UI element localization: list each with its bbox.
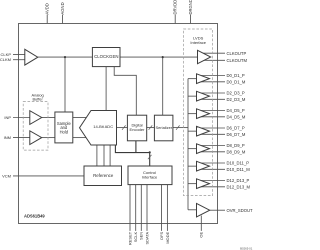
svg-text:D8_D9_M: D8_D9_M [227, 149, 246, 154]
svg-text:CLKOUTP: CLKOUTP [227, 51, 247, 56]
junction dots [64, 56, 164, 153]
svg-text:CLOCKGEN: CLOCKGEN [94, 54, 118, 59]
wire bus branch D0 [188, 78, 197, 80]
pin SDATA wire [146, 185, 148, 231]
pin INP wire [13, 117, 30, 119]
svg-text:D2_D3_P: D2_D3_P [227, 91, 245, 96]
wire clock tap to Serializer [162, 57, 164, 115]
svg-text:D0_D1_M: D0_D1_M [227, 79, 246, 84]
svg-text:D8_D9_P: D8_D9_P [227, 143, 245, 148]
bus slash serializer to LVDS [176, 125, 180, 129]
pin DRGND stub [190, 15, 192, 24]
wire ADC to Reference 3 [109, 145, 111, 166]
svg-text:Encoder: Encoder [130, 127, 146, 132]
bus slash encoder to serializer [149, 125, 153, 129]
analog buffer 2 [30, 131, 42, 145]
node sampling clock junction [64, 56, 66, 58]
svg-text:Interface: Interface [190, 40, 206, 45]
svg-text:DRVDD: DRVDD [173, 0, 178, 15]
pin D2_D3_M wire [201, 98, 225, 100]
pin SEN wire [140, 185, 142, 231]
svg-text:OVR_SDOUT: OVR_SDOUT [227, 208, 254, 213]
pin CLKP wire [13, 54, 25, 56]
wire Serializer to LVDS bus [173, 127, 188, 129]
svg-text:INP: INP [4, 115, 11, 120]
Serializer box [154, 115, 173, 141]
data pin wires right side [201, 76, 225, 187]
triangles [25, 49, 211, 217]
pin VCM wire [13, 175, 84, 177]
component boxes [55, 48, 173, 186]
analog buffer dashed box [23, 102, 48, 151]
clock input buffer [25, 49, 38, 65]
svg-text:Hold: Hold [60, 129, 69, 134]
svg-text:Buffer: Buffer [32, 96, 43, 101]
pin CLKOUTP wire [203, 52, 225, 54]
LVDS buffer D0_D1 [197, 74, 210, 84]
pin AVDD stub [46, 15, 48, 24]
svg-text:MODE: MODE [165, 231, 170, 243]
wire bus branch OVR buffer [188, 209, 197, 211]
pin D8_D9_M wire [201, 151, 225, 153]
CLOCKGEN box [92, 48, 120, 67]
wire ADC to Reference 1 [96, 145, 98, 166]
bus slash control bus [148, 155, 152, 159]
svg-text:D6_D7_M: D6_D7_M [227, 132, 246, 137]
wire Digital Encoder to Serializer [147, 127, 155, 129]
wire Sample and Hold to ADC upper [73, 117, 87, 119]
pin RESET wire [129, 185, 131, 231]
pin OVR_SDOUT wire [210, 209, 225, 211]
Reference box [84, 166, 122, 186]
LVDS buffer D4_D5 [197, 109, 210, 119]
svg-text:Interface: Interface [142, 175, 158, 180]
svg-text:Reference: Reference [93, 173, 114, 178]
analog buffer 1 [30, 111, 42, 125]
pin D0_D1_P wire [201, 75, 225, 77]
node serializer clock junction [162, 56, 164, 58]
LVDS buffer D10_D11 [197, 161, 210, 171]
wire CLOCKGEN to ADC clock [105, 67, 107, 111]
Digital Encoder box [127, 115, 146, 141]
pin SCLK wire [135, 185, 137, 231]
svg-text:VCM: VCM [2, 173, 11, 178]
pin D12_D13_M wire [201, 186, 225, 188]
wire control bus ADC branch [115, 145, 149, 153]
pin D0_D1_M wire [201, 81, 225, 83]
wire Sample and Hold to ADC lower [73, 137, 86, 139]
LVDS interface dashed box [184, 29, 213, 196]
svg-text:OE: OE [199, 231, 204, 237]
pin AGND stub [62, 15, 64, 24]
svg-text:D4_D5_M: D4_D5_M [227, 114, 246, 119]
LVDS clock buffer [198, 50, 211, 63]
pin DRVDD stub [174, 15, 176, 24]
svg-text:SDATA: SDATA [144, 231, 149, 244]
svg-text:SCLK: SCLK [133, 231, 138, 242]
svg-text:INM: INM [4, 135, 11, 140]
wire LVDS data bus vertical [187, 79, 189, 210]
wire bus branch D12 [188, 183, 197, 185]
bus slash ADC to encoder [122, 125, 126, 129]
svg-text:D0_D1_P: D0_D1_P [227, 73, 245, 78]
wire ADC to Digital Encoder [117, 127, 128, 129]
pin DFS wire [161, 185, 163, 231]
pin CLKM wire [13, 59, 25, 61]
svg-text:D2_D3_M: D2_D3_M [227, 97, 246, 102]
svg-text:RESET: RESET [127, 231, 132, 245]
wire CLOCKGEN to LVDS clock buffer [120, 56, 198, 58]
pin D8_D9_P wire [201, 145, 225, 147]
svg-text:AGND: AGND [60, 2, 65, 14]
pin D10_D11_M wire [201, 168, 225, 170]
svg-text:D12_D13_P: D12_D13_P [227, 178, 250, 183]
svg-text:ADS61B49: ADS61B49 [24, 214, 45, 219]
pin D10_D11_P wire [201, 162, 225, 164]
wire CLOCKGEN to Digital Encoder clock [114, 67, 136, 116]
LVDS buffer OVR_SDOUT [197, 203, 210, 217]
wire bus branch D10 [188, 165, 197, 167]
svg-text:AVDD: AVDD [45, 3, 50, 14]
Control Interface box [128, 166, 172, 185]
svg-text:D12_D13_M: D12_D13_M [227, 184, 251, 189]
node control bus junction [149, 151, 151, 153]
svg-text:D10_D11_M: D10_D11_M [227, 167, 251, 172]
Sample and Hold box [55, 112, 73, 143]
pin D12_D13_P wire [201, 180, 225, 182]
pin D4_D5_P wire [201, 110, 225, 112]
svg-text:D6_D7_P: D6_D7_P [227, 126, 245, 131]
wire bus branch D4 [188, 113, 197, 115]
pin INM wire [13, 137, 30, 139]
LVDS buffer D8_D9 [197, 144, 210, 154]
svg-text:CLKOUTM: CLKOUTM [227, 58, 248, 63]
14-Bit ADC pentagon [80, 111, 117, 146]
svg-text:SEN: SEN [139, 232, 144, 240]
pin CLKOUTM wire [203, 59, 225, 61]
svg-text:14-Bit ADC: 14-Bit ADC [93, 124, 113, 129]
pin D6_D7_P wire [201, 127, 225, 129]
bus slashes [122, 125, 180, 159]
LVDS buffer D12_D13 [197, 179, 210, 189]
svg-text:Serializer: Serializer [155, 125, 172, 130]
pin D2_D3_P wire [201, 92, 225, 94]
wire buffer2 to Sample and Hold [42, 137, 55, 139]
wire encoder to control bus [135, 141, 137, 153]
wire clock buffer to CLOCKGEN [38, 56, 93, 58]
pin D4_D5_M wire [201, 116, 225, 118]
wire sampling clock down to Sample and Hold [64, 57, 66, 112]
wire control bus to Control Interface [149, 152, 151, 166]
svg-text:D10_D11_P: D10_D11_P [227, 161, 250, 166]
svg-text:DRGND: DRGND [188, 0, 193, 15]
main box ADS61B49 outline [19, 24, 218, 224]
pin D6_D7_M wire [201, 133, 225, 135]
LVDS buffer D2_D3 [197, 91, 210, 101]
wire ADC to Reference 2 [103, 145, 105, 166]
svg-text:CLKM: CLKM [0, 57, 11, 62]
svg-text:D4_D5_P: D4_D5_P [227, 108, 245, 113]
pin MODE wire [166, 185, 168, 231]
dashed boxes [23, 29, 212, 196]
svg-text:DFS: DFS [159, 231, 164, 239]
wire buffer1 to Sample and Hold [42, 117, 55, 119]
pin OE wire [200, 216, 202, 231]
LVDS buffer D6_D7 [197, 126, 210, 136]
wire bus branch D2 [188, 95, 197, 97]
wire bus branch D8 [188, 148, 197, 150]
wire bus branch D6 [188, 130, 197, 132]
